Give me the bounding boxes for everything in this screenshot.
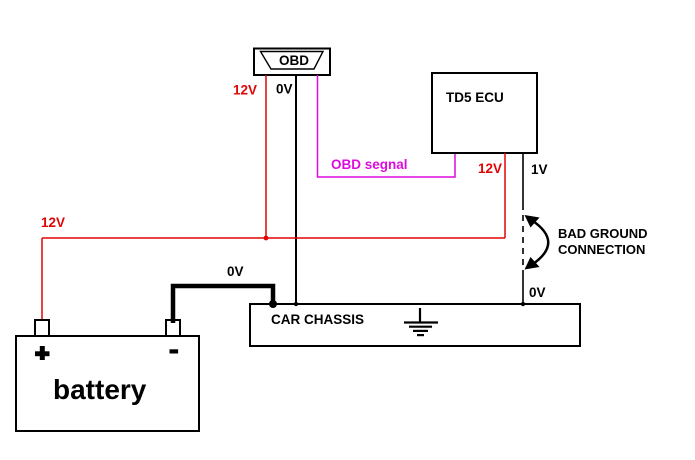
ground symbol stem bbox=[419, 308, 421, 323]
ground symbol bar 4 bbox=[417, 334, 424, 336]
TD5 ECU box U1 bbox=[432, 73, 537, 153]
bad ground curved arrow bbox=[532, 220, 549, 265]
battery BT1 box bbox=[16, 336, 199, 431]
wire: red 12V from OBD pin down to 12V bus bbox=[265, 75, 267, 238]
svg-text:BAD GROUND: BAD GROUND bbox=[558, 226, 648, 241]
svg-text:battery: battery bbox=[53, 374, 147, 405]
wire: red 12V down to battery + bbox=[41, 238, 43, 320]
svg-text:CONNECTION: CONNECTION bbox=[558, 242, 645, 257]
wire: red 12V from ECU down to 12V bus bbox=[504, 153, 506, 238]
OBD connector J1 outer box bbox=[254, 49, 330, 76]
svg-text:1V: 1V bbox=[531, 162, 548, 177]
wire: magenta OBD signal (OBD pin down, right, up to ECU) bbox=[318, 75, 456, 177]
wire: thick black 0V battery negative to chassis bbox=[173, 286, 273, 323]
svg-text:TD5 ECU: TD5 ECU bbox=[446, 90, 504, 105]
svg-text:CAR CHASSIS: CAR CHASSIS bbox=[271, 312, 364, 327]
wire: black 1V ECU ground, solid upper part bbox=[522, 153, 524, 204]
svg-text:0V: 0V bbox=[529, 285, 546, 300]
label + bbox=[35, 351, 50, 356]
svg-text:12V: 12V bbox=[233, 83, 257, 98]
OBD connector J1 trapezoid face bbox=[261, 52, 324, 70]
battery + terminal bbox=[35, 320, 49, 336]
svg-text:0V: 0V bbox=[227, 264, 244, 279]
svg-text:12V: 12V bbox=[41, 215, 65, 230]
battery - terminal bbox=[166, 320, 180, 336]
junction dot on 12V bus bbox=[264, 236, 269, 241]
ground symbol bar 2 bbox=[409, 326, 432, 328]
car chassis box bbox=[250, 304, 580, 346]
junction dot on chassis top (ECU ground) bbox=[521, 302, 525, 306]
label - bbox=[170, 349, 179, 353]
svg-text:12V: 12V bbox=[478, 161, 502, 176]
wire: black solid lower part to chassis bbox=[522, 270, 524, 304]
ground symbol bar 3 bbox=[413, 330, 428, 332]
wire: black 0V from OBD pin down to chassis bbox=[295, 75, 297, 304]
junction dot thick wire on chassis bbox=[269, 300, 277, 308]
svg-text:OBD segnal: OBD segnal bbox=[331, 157, 408, 172]
ground symbol bar 1 bbox=[404, 321, 438, 323]
svg-text:0V: 0V bbox=[276, 82, 293, 97]
wire: dashed bad-ground section bbox=[522, 204, 524, 270]
svg-text:OBD: OBD bbox=[279, 53, 309, 68]
junction dot on chassis top (0V OBD wire) bbox=[294, 302, 298, 306]
wire: red 12V bus horizontal bbox=[42, 237, 505, 239]
